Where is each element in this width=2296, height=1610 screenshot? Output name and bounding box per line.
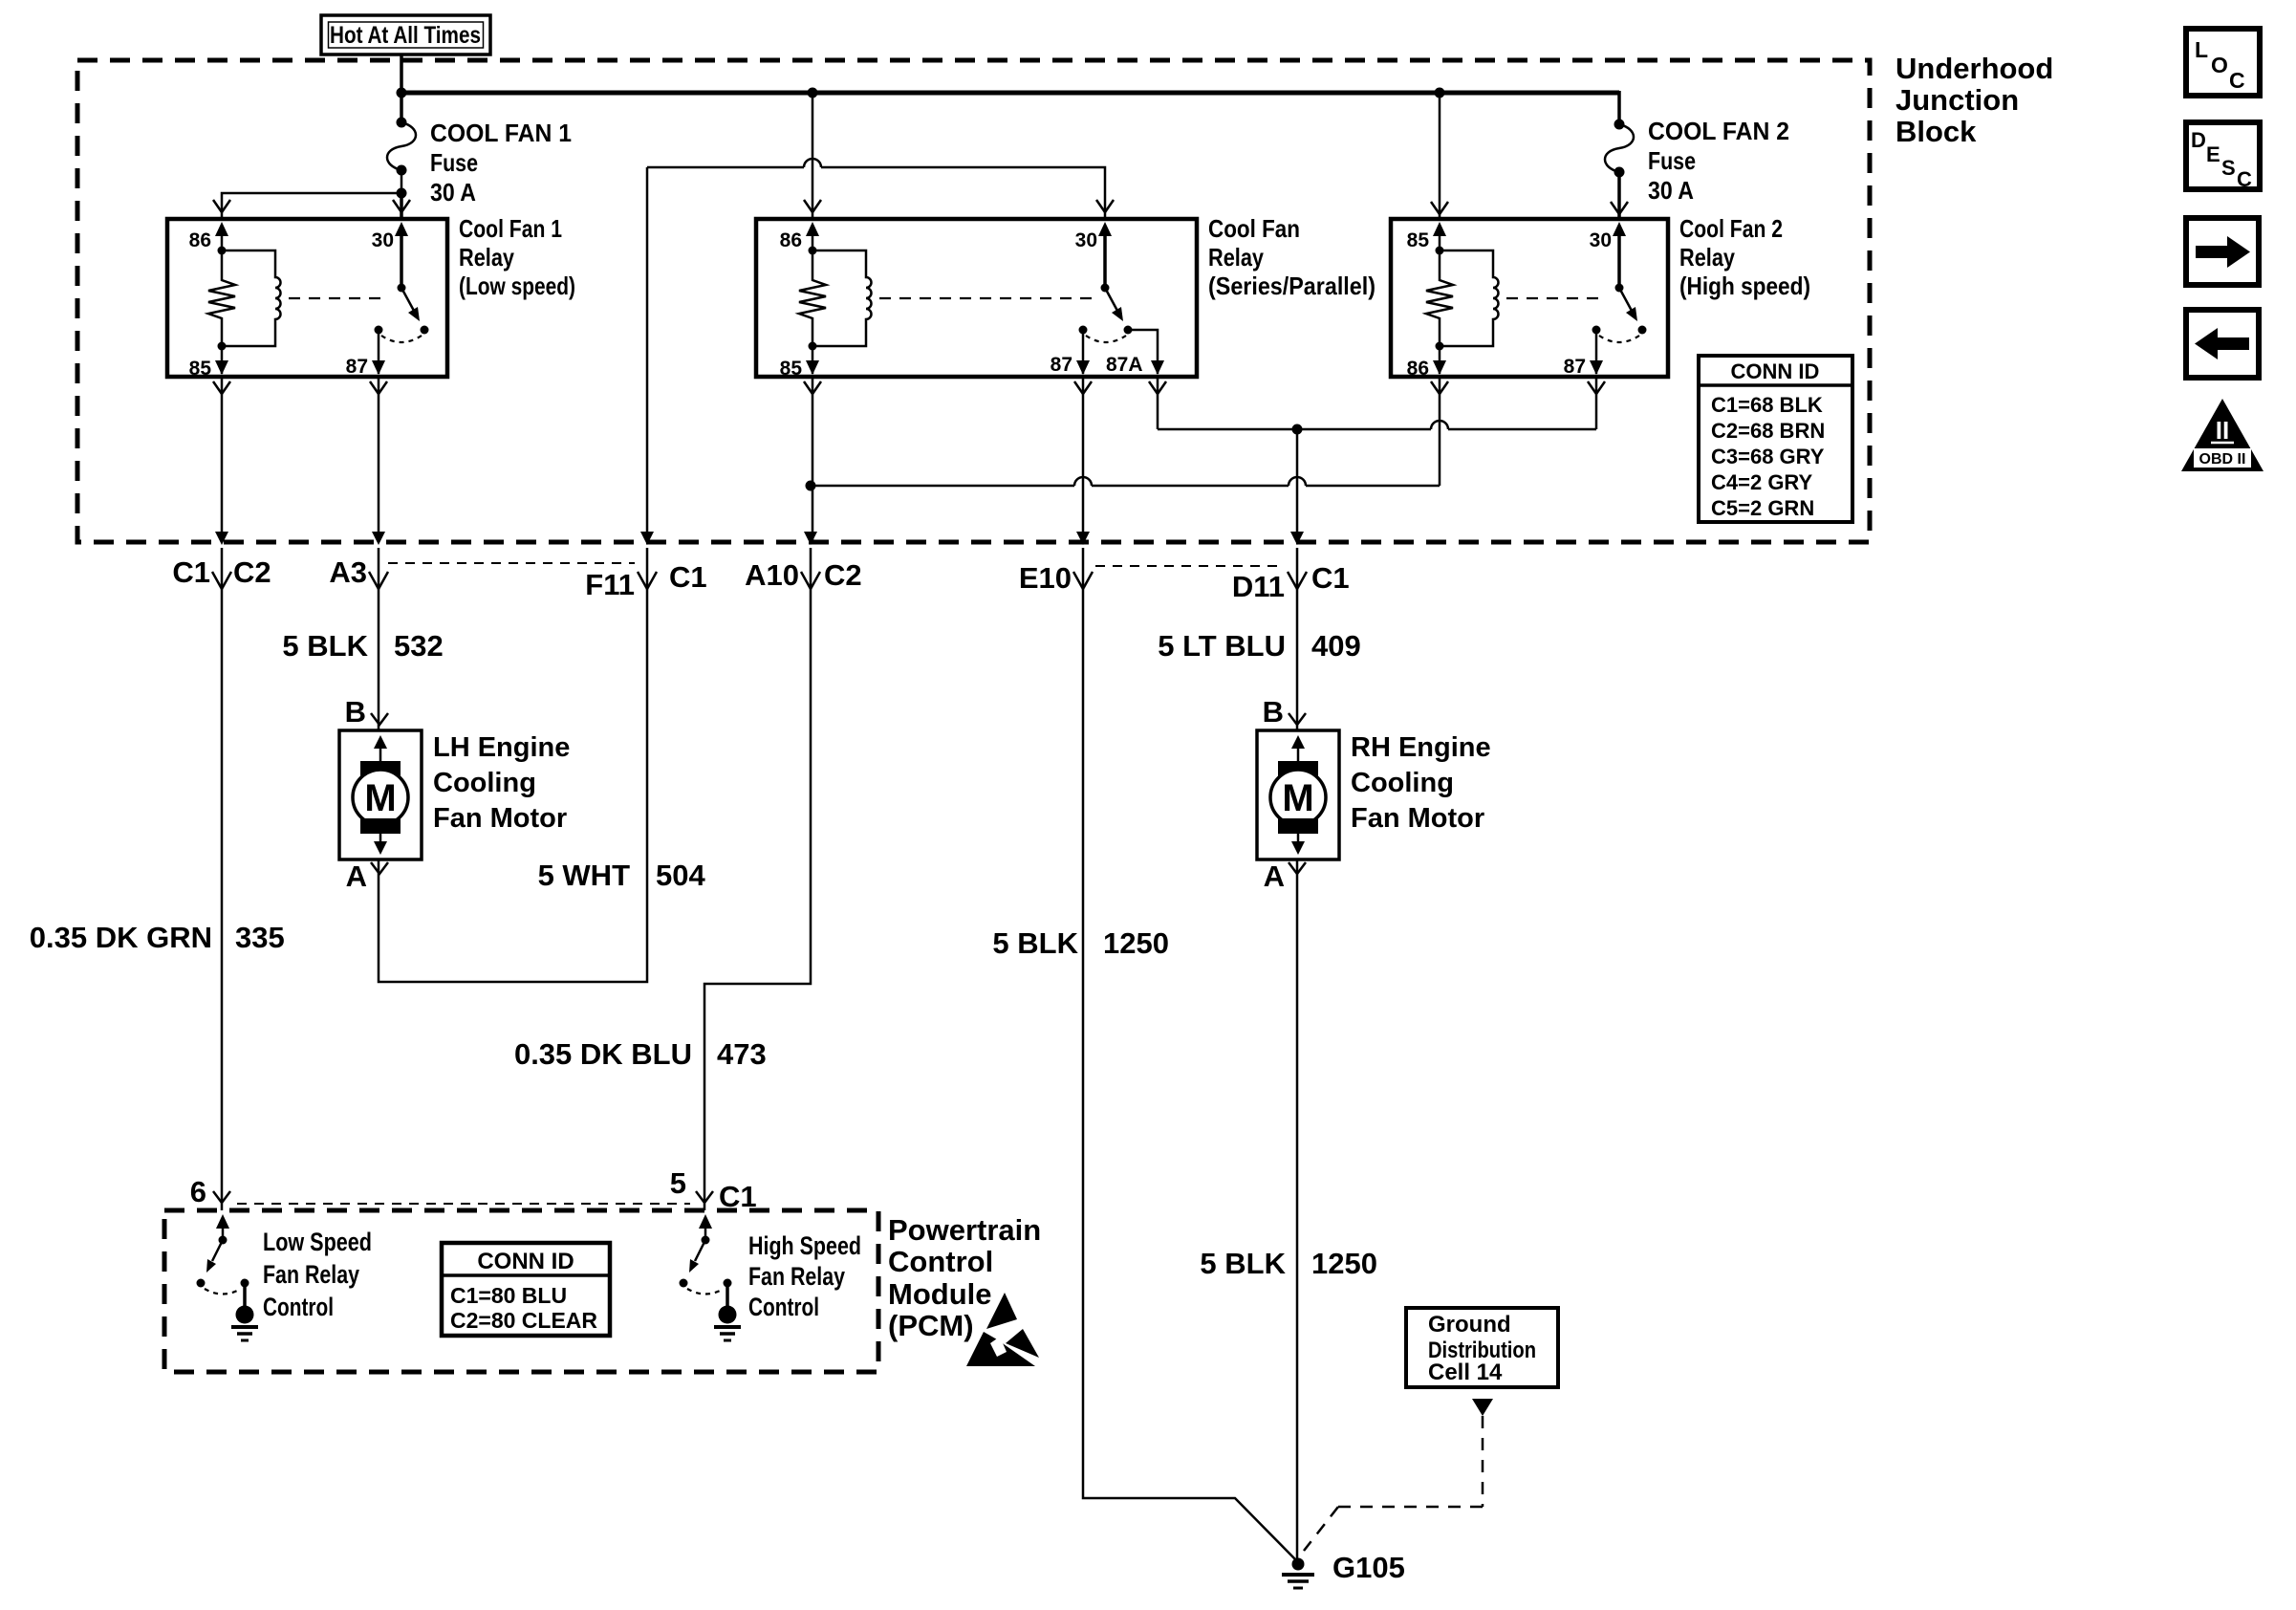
pin 85 relay 1	[189, 346, 228, 380]
svg-text:Control: Control	[263, 1293, 334, 1321]
svg-text:Powertrain: Powertrain	[888, 1213, 1041, 1247]
dashed ground reference wire	[1304, 1416, 1483, 1551]
dashed actuation link relay 3	[1506, 297, 1606, 299]
node fuse 1 output junction	[397, 188, 407, 199]
wire power tap down to relay 2 pin 86	[812, 93, 814, 219]
pin 87 relay 2	[1051, 330, 1090, 376]
svg-text:Cool Fan 1: Cool Fan 1	[459, 214, 562, 243]
connector fork above relay 2 pin 30	[1096, 200, 1114, 212]
power rail wire	[401, 91, 1619, 96]
svg-text:C1: C1	[719, 1180, 757, 1213]
left arrow legend icon	[2186, 310, 2259, 378]
svg-text:Low Speed: Low Speed	[263, 1228, 372, 1256]
connector fork above relay 2 pin 86	[804, 200, 821, 212]
fuse 2 label	[1648, 117, 1789, 205]
svg-text:85: 85	[1407, 229, 1430, 251]
fuse 1 label	[430, 119, 572, 207]
svg-text:473: 473	[717, 1037, 767, 1071]
svg-text:G105: G105	[1332, 1551, 1405, 1584]
LOC legend icon	[2186, 29, 2260, 96]
motor M1 label	[433, 732, 570, 834]
dashed actuation link relay 2	[879, 297, 1092, 299]
wire fuse 1 to relay 1 terminal 30	[400, 193, 403, 219]
connector fork LH motor A	[371, 862, 388, 874]
svg-text:Underhood: Underhood	[1895, 52, 2053, 85]
wire C1 drop to PCM pin 6	[221, 548, 224, 1210]
svg-text:M: M	[364, 777, 396, 819]
svg-text:C1: C1	[1311, 561, 1350, 595]
pin 30 relay 2 switch common	[1075, 222, 1112, 288]
border exit arrow A3 wire	[372, 532, 385, 545]
node junction dot at relay 3 coil tap	[1435, 88, 1445, 98]
node relay1 switch pivot	[398, 284, 406, 293]
node relay3 switch pivot	[1615, 284, 1624, 293]
wire relay2 terminal 30 feed from F11 riser	[647, 167, 1105, 219]
svg-text:C1: C1	[172, 555, 210, 589]
wire label 5 LT BLU 409	[1158, 629, 1360, 663]
svg-text:87: 87	[346, 356, 368, 378]
svg-text:87A: 87A	[1106, 354, 1143, 376]
fuse COOL FAN 2 30A	[1605, 120, 1634, 178]
svg-text:Hot At All Times: Hot At All Times	[330, 22, 481, 49]
wire hop over D11 drop	[1289, 477, 1306, 486]
PCM label	[888, 1213, 1041, 1342]
connector fork C1-C2	[212, 572, 231, 589]
border exit arrow F11 wire	[640, 532, 654, 545]
svg-text:Block: Block	[1895, 115, 1977, 148]
connector fork A10-C2	[801, 572, 820, 589]
svg-text:(Low speed): (Low speed)	[459, 272, 575, 300]
svg-text:409: 409	[1311, 629, 1361, 663]
svg-text:Fan Motor: Fan Motor	[1351, 803, 1484, 834]
pin 30 relay 1 switch common	[372, 222, 408, 288]
wire series link 87A to relay3 87	[1158, 428, 1596, 431]
svg-text:87: 87	[1051, 354, 1072, 376]
thin dashed connector line E10 to D11	[1095, 565, 1285, 567]
connector fork above relay 3 pin 85	[1431, 202, 1448, 214]
svg-text:C1=68 BLK: C1=68 BLK	[1711, 393, 1823, 417]
connector fork above relay 3 pin 30	[1611, 202, 1628, 214]
motor M2 label	[1351, 732, 1491, 834]
svg-text:Cool Fan 2: Cool Fan 2	[1679, 214, 1783, 243]
border exit arrow A10 wire	[804, 532, 817, 545]
dashed actuation link relay 1	[289, 297, 388, 299]
motor M2 RH Engine Cooling Fan Motor	[1257, 730, 1339, 859]
svg-text:5 BLK: 5 BLK	[1200, 1247, 1286, 1280]
wire relay2 87 down to E10 connector	[1082, 377, 1085, 541]
node relay1 coil bottom junction	[218, 342, 227, 351]
node relay3 coil bottom junction	[1436, 342, 1444, 351]
svg-text:85: 85	[780, 358, 803, 380]
svg-text:O: O	[2211, 53, 2228, 77]
svg-text:A: A	[346, 859, 367, 893]
wire relay3 86 down to parallel link	[1439, 377, 1441, 486]
svg-text:CONN ID: CONN ID	[1731, 359, 1820, 383]
svg-text:Module: Module	[888, 1277, 992, 1311]
svg-text:0.35 DK GRN: 0.35 DK GRN	[30, 921, 212, 954]
svg-text:C1=80 BLU: C1=80 BLU	[450, 1283, 567, 1308]
high speed fan relay control switch	[680, 1214, 742, 1340]
svg-text:COOL FAN 1: COOL FAN 1	[430, 119, 572, 147]
wire fuse 1 output	[401, 170, 403, 193]
svg-text:Fan Relay: Fan Relay	[748, 1262, 845, 1291]
relay K1 label	[459, 214, 575, 300]
pin 86 relay 1	[189, 222, 228, 251]
Ground Distribution Cell 14 box	[1406, 1308, 1558, 1387]
wire power tap down to relay 3 pin 85	[1439, 93, 1441, 221]
wire label 0.35 DK BLU 473	[514, 1037, 767, 1071]
wire hop over relay2 86 feed	[804, 159, 821, 167]
svg-text:Relay: Relay	[1679, 243, 1735, 272]
node relay2 fixed contact 87	[1079, 326, 1088, 335]
connector fork E10	[1073, 572, 1093, 589]
node junction dot at relay 2 tap	[808, 88, 818, 98]
node relay1 coil top junction	[218, 247, 227, 255]
pin 87 relay 1	[346, 330, 385, 378]
svg-text:30 A: 30 A	[430, 178, 476, 207]
svg-text:86: 86	[1407, 358, 1429, 380]
wire fuse 2 output to relay 3 terminal 30	[1617, 172, 1621, 221]
power source label "Hot At All Times"	[321, 15, 490, 54]
svg-text:Control: Control	[748, 1293, 819, 1321]
connector fork below relay2 pin 87	[1074, 381, 1092, 394]
svg-text:LH Engine: LH Engine	[433, 732, 570, 763]
svg-text:0.35 DK BLU: 0.35 DK BLU	[514, 1037, 692, 1071]
CONN ID table junction block	[1699, 356, 1852, 522]
pin 87A relay 2	[1106, 330, 1164, 376]
svg-text:C3=68 GRY: C3=68 GRY	[1711, 445, 1825, 468]
wire label 5 BLK 1250 right	[1200, 1247, 1377, 1280]
svg-text:C2=80 CLEAR: C2=80 CLEAR	[450, 1308, 597, 1333]
svg-text:A3: A3	[329, 555, 367, 589]
svg-text:B: B	[1263, 695, 1284, 729]
svg-text:RH Engine: RH Engine	[1351, 732, 1491, 763]
connector fork PCM pin 5	[696, 1191, 713, 1203]
connector fork below relay3 pin 87	[1588, 381, 1605, 394]
wire A3 drop to LH motor B	[378, 548, 380, 730]
svg-text:COOL FAN 2: COOL FAN 2	[1648, 117, 1789, 145]
svg-text:Ground: Ground	[1428, 1312, 1511, 1338]
PCM dashed boundary	[164, 1210, 878, 1372]
node relay2 coil bottom junction	[809, 342, 817, 351]
svg-text:C4=2 GRY: C4=2 GRY	[1711, 470, 1813, 494]
svg-text:30: 30	[1590, 229, 1612, 251]
wire hop over relay3 86 drop	[1431, 421, 1448, 429]
connector fork below relay2 pin 87A	[1149, 381, 1166, 394]
svg-text:(Series/Parallel): (Series/Parallel)	[1208, 272, 1375, 300]
svg-text:Control: Control	[888, 1245, 993, 1278]
node relay1 moving contact	[421, 326, 429, 335]
high speed switch label	[748, 1231, 861, 1321]
wire relay3 87 down to series link	[1595, 377, 1598, 429]
switch blade relay 3	[1619, 288, 1637, 321]
dashed contact arc relay 3	[1599, 336, 1639, 342]
svg-text:6: 6	[190, 1175, 206, 1208]
svg-text:A10: A10	[745, 558, 799, 592]
svg-text:86: 86	[780, 229, 802, 251]
resistor relay 2	[799, 250, 826, 346]
svg-text:D11: D11	[1232, 570, 1285, 603]
node parallel link junction at A10 drop	[806, 481, 816, 491]
svg-text:S: S	[2221, 156, 2236, 180]
svg-text:C: C	[2229, 68, 2245, 93]
ESD sensitivity symbol	[966, 1293, 1039, 1366]
svg-text:II: II	[2216, 416, 2229, 445]
Underhood Junction Block dashed boundary	[77, 60, 1870, 542]
svg-text:1250: 1250	[1311, 1247, 1377, 1280]
pin 30 relay 3 switch common	[1590, 222, 1626, 288]
svg-text:Junction: Junction	[1895, 83, 2019, 117]
svg-text:335: 335	[235, 921, 285, 954]
svg-text:504: 504	[656, 859, 705, 892]
connector fork F11	[638, 572, 657, 589]
wire parallel link relay2 85 to relay3 86	[811, 485, 1440, 488]
svg-text:C2=68 BRN: C2=68 BRN	[1711, 419, 1825, 443]
svg-text:CONN ID: CONN ID	[477, 1249, 574, 1274]
low speed fan relay control switch	[197, 1214, 259, 1340]
connector fork D11-C1	[1288, 572, 1307, 589]
DESC legend icon	[2186, 122, 2260, 191]
svg-text:E: E	[2206, 142, 2220, 166]
svg-text:(High speed): (High speed)	[1679, 272, 1810, 300]
svg-text:C: C	[2237, 167, 2252, 191]
svg-text:Relay: Relay	[1208, 243, 1264, 272]
svg-text:Cooling: Cooling	[1351, 768, 1454, 798]
svg-text:C1: C1	[669, 560, 707, 594]
svg-text:D: D	[2191, 128, 2206, 152]
connector fork above relay 1 pin 86	[213, 200, 230, 212]
node junction dot at fuse 1 tap	[397, 88, 407, 98]
connector fork above relay 1 pin 30	[393, 200, 410, 212]
pin 85 relay 3	[1407, 222, 1446, 251]
wire label 5 WHT 504	[538, 859, 706, 892]
thin dashed connector line A3 to F11	[388, 562, 635, 564]
ground G105	[1282, 1558, 1314, 1589]
connector fork below relay2 pin 85	[804, 381, 821, 394]
svg-text:Fan Motor: Fan Motor	[433, 803, 567, 834]
relay K3 label	[1679, 214, 1810, 300]
svg-text:532: 532	[394, 629, 444, 663]
svg-text:5: 5	[670, 1166, 686, 1200]
connector fork RH motor B	[1289, 713, 1306, 725]
svg-text:Fuse: Fuse	[430, 148, 478, 177]
connector fork RH motor A	[1289, 862, 1306, 874]
wire label 5 BLK 1250 left	[992, 926, 1169, 960]
wire fuse 1 to relay 1 coil feed	[222, 193, 401, 219]
coil relay 2	[812, 250, 872, 346]
node relay3 moving contact	[1638, 326, 1647, 335]
wire hop over E10 drop	[1074, 477, 1092, 486]
connector label C1 C2	[172, 555, 271, 589]
coil relay 1	[222, 250, 281, 346]
connector fork below relay3 pin 86	[1431, 381, 1448, 394]
wire RH motor A to ground G105	[1296, 859, 1299, 1562]
border exit arrow E10 wire	[1076, 532, 1090, 545]
low speed switch label	[263, 1228, 372, 1321]
pin 87 relay 3	[1564, 330, 1603, 378]
node relay2 moving contact 87A	[1124, 326, 1133, 335]
dashed contact arc relay 2	[1086, 336, 1126, 342]
svg-text:High Speed: High Speed	[748, 1231, 861, 1260]
svg-text:C5=2 GRN: C5=2 GRN	[1711, 496, 1814, 520]
connector fork LH motor B	[371, 713, 388, 725]
svg-text:F11: F11	[585, 568, 635, 601]
svg-text:(PCM): (PCM)	[888, 1309, 974, 1342]
svg-text:Cooling: Cooling	[433, 768, 536, 798]
svg-text:5 WHT: 5 WHT	[538, 859, 631, 892]
svg-text:E10: E10	[1019, 561, 1072, 595]
pin 86 relay 3	[1407, 346, 1446, 380]
wire relay1 87 down to A3 connector	[378, 377, 380, 541]
node relay2 switch pivot	[1101, 284, 1110, 293]
wire from Hot At All Times down into junction block	[400, 54, 403, 122]
svg-text:A: A	[1264, 859, 1285, 893]
svg-text:86: 86	[189, 229, 211, 251]
node relay3 coil top junction	[1436, 247, 1444, 255]
wire power rail corner down to fuse 2	[1617, 91, 1621, 124]
OBD II legend icon	[2181, 399, 2264, 471]
wire D11 drop to connector	[1296, 429, 1299, 541]
relay K2 Cool Fan Relay (Series/Parallel) box	[756, 219, 1197, 377]
wire LH motor A to F11 riser (5 WHT 504)	[379, 548, 647, 982]
pin 85 relay 2	[780, 346, 819, 380]
svg-text:5 LT BLU: 5 LT BLU	[1158, 629, 1286, 663]
relay K2 label	[1208, 214, 1375, 300]
resistor relay 1	[208, 250, 235, 346]
wire label 5 BLK 532	[282, 629, 443, 663]
svg-text:Fan Relay: Fan Relay	[263, 1260, 359, 1289]
node relay1 fixed contact 87	[375, 326, 383, 335]
dashed contact arc relay 1	[381, 336, 422, 342]
border exit arrow D11 wire	[1290, 532, 1304, 545]
resistor relay 3	[1426, 250, 1453, 346]
Underhood Junction Block label	[1895, 52, 2053, 148]
relay K1 Cool Fan 1 Relay box	[167, 219, 447, 377]
connector label F11 C1	[585, 560, 706, 601]
svg-text:30: 30	[1075, 229, 1097, 251]
svg-text:87: 87	[1564, 356, 1586, 378]
connector fork below relay1 pin 87	[370, 381, 387, 394]
svg-text:Cell 14: Cell 14	[1428, 1360, 1503, 1385]
relay K3 Cool Fan 2 Relay box	[1391, 219, 1668, 377]
svg-text:L: L	[2195, 37, 2208, 62]
svg-text:Fuse: Fuse	[1648, 146, 1696, 175]
svg-text:Relay: Relay	[459, 243, 514, 272]
node relay3 fixed contact 87	[1592, 326, 1601, 335]
connector fork below relay1 pin 85	[213, 381, 230, 394]
wire A10 drop to PCM pin 5 (0.35 DK BLU 473)	[704, 548, 811, 1210]
svg-text:5 BLK: 5 BLK	[282, 629, 368, 663]
wire relay2 87A down to series link	[1157, 377, 1159, 429]
svg-text:30 A: 30 A	[1648, 176, 1694, 205]
connector label D11 C1	[1232, 561, 1350, 603]
thin dotted PCM connector line	[237, 1203, 690, 1205]
coil relay 3	[1440, 250, 1499, 346]
svg-text:1250: 1250	[1103, 926, 1169, 960]
node series link junction to D11	[1292, 424, 1303, 435]
border exit arrow C1 wire	[215, 532, 228, 545]
PCM CONN ID table	[442, 1243, 610, 1336]
wire relay1 85 down to C1 connector	[221, 377, 224, 541]
svg-text:OBD II: OBD II	[2199, 451, 2246, 468]
switch blade relay 2	[1105, 288, 1123, 321]
motor M1 LH Engine Cooling Fan Motor	[339, 730, 422, 859]
svg-text:Cool Fan: Cool Fan	[1208, 214, 1300, 243]
connector fork PCM pin 6	[213, 1191, 230, 1203]
wire label 0.35 DK GRN 335	[30, 921, 285, 954]
pin 86 relay 2	[780, 222, 819, 251]
svg-text:C2: C2	[233, 555, 271, 589]
wire F11 riser inside junction block	[646, 167, 649, 541]
svg-text:5 BLK: 5 BLK	[992, 926, 1078, 960]
wire E10 drop to ground run	[1083, 548, 1298, 1562]
fuse COOL FAN 1 30A	[387, 118, 416, 176]
svg-text:85: 85	[189, 358, 212, 380]
node relay2 coil top junction	[809, 247, 817, 255]
svg-text:B: B	[345, 695, 366, 729]
svg-text:M: M	[1282, 777, 1313, 819]
svg-text:C2: C2	[824, 558, 862, 592]
ground distribution pointer triangle	[1472, 1399, 1493, 1416]
right arrow legend icon	[2186, 218, 2259, 285]
connector fork A3	[369, 572, 388, 589]
svg-text:30: 30	[372, 229, 394, 251]
switch blade relay 1	[401, 288, 420, 321]
wire relay2 85 down to A10 connector	[812, 377, 814, 541]
connector label A10 C2	[745, 558, 862, 592]
wire D11 drop to RH motor B	[1296, 548, 1299, 730]
